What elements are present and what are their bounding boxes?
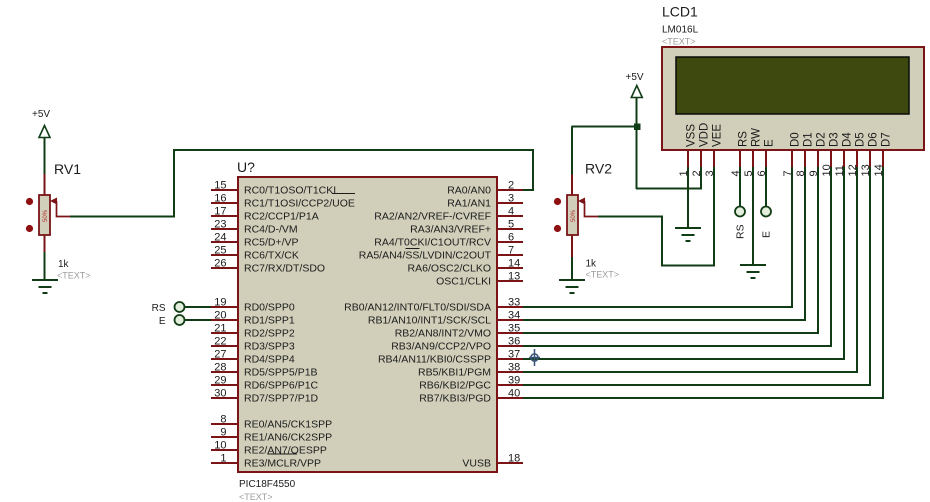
svg-text:PIC18F4550: PIC18F4550	[239, 479, 296, 490]
svg-text:37: 37	[508, 349, 520, 361]
svg-text:LCD1: LCD1	[662, 4, 698, 20]
svg-text:9: 9	[220, 427, 226, 439]
svg-text:33: 33	[508, 297, 520, 309]
svg-text:14: 14	[508, 258, 520, 270]
svg-text:RC1/T1OSI/CCP2/UOE: RC1/T1OSI/CCP2/UOE	[244, 198, 355, 210]
svg-text:D7: D7	[881, 132, 893, 147]
svg-text:25: 25	[214, 245, 226, 257]
svg-text:24: 24	[214, 232, 226, 244]
svg-text:<TEXT>: <TEXT>	[662, 37, 696, 47]
svg-text:16: 16	[214, 193, 226, 205]
svg-text:RC5/D+/VP: RC5/D+/VP	[244, 237, 299, 249]
svg-text:RD7/SPP7/P1D: RD7/SPP7/P1D	[244, 393, 319, 405]
svg-text:RA0/AN0: RA0/AN0	[447, 185, 491, 197]
svg-text:RB3/AN9/CCP2/VPO: RB3/AN9/CCP2/VPO	[391, 341, 491, 353]
svg-text:RD0/SPP0: RD0/SPP0	[244, 302, 295, 314]
svg-text:RE2/AN7/OESPP: RE2/AN7/OESPP	[244, 445, 327, 457]
svg-text:RA4/T0CKI/C1OUT/RCV: RA4/T0CKI/C1OUT/RCV	[374, 237, 491, 249]
svg-text:U?: U?	[237, 159, 255, 175]
svg-text:18: 18	[508, 453, 520, 465]
svg-text:<TEXT>: <TEXT>	[586, 270, 620, 280]
svg-text:7: 7	[508, 245, 514, 257]
svg-text:30: 30	[214, 388, 226, 400]
svg-text:RB0/AN12/INT0/FLT0/SDI/SDA: RB0/AN12/INT0/FLT0/SDI/SDA	[344, 302, 491, 314]
svg-text:1: 1	[220, 453, 226, 465]
svg-text:RD1/SPP1: RD1/SPP1	[244, 315, 295, 327]
svg-text:29: 29	[214, 375, 226, 387]
svg-text:VUSB: VUSB	[462, 458, 491, 470]
svg-text:<TEXT>: <TEXT>	[239, 492, 273, 502]
svg-text:RD4/SPP4: RD4/SPP4	[244, 354, 295, 366]
svg-text:RB2/AN8/INT2/VMO: RB2/AN8/INT2/VMO	[395, 328, 491, 340]
svg-text:RC2/CCP1/P1A: RC2/CCP1/P1A	[244, 211, 319, 223]
svg-text:RV2: RV2	[585, 161, 612, 177]
svg-text:2: 2	[508, 180, 514, 192]
svg-text:OSC1/CLKI: OSC1/CLKI	[436, 276, 491, 288]
svg-text:RB5/KBI1/PGM: RB5/KBI1/PGM	[418, 367, 491, 379]
svg-text:10: 10	[214, 440, 226, 452]
svg-text:8: 8	[220, 414, 226, 426]
svg-text:23: 23	[214, 219, 226, 231]
svg-text:RD6/SPP6/P1C: RD6/SPP6/P1C	[244, 380, 319, 392]
svg-text:<TEXT>: <TEXT>	[57, 271, 91, 281]
svg-text:RC0/T1OSO/T1CKI: RC0/T1OSO/T1CKI	[244, 185, 336, 197]
svg-text:D3: D3	[829, 132, 841, 147]
svg-text:VSS: VSS	[686, 124, 698, 147]
svg-text:E: E	[764, 139, 776, 147]
svg-text:D5: D5	[855, 132, 867, 147]
svg-text:RE3/MCLR/VPP: RE3/MCLR/VPP	[244, 458, 321, 470]
svg-text:RS: RS	[735, 224, 747, 239]
svg-text:RV1: RV1	[54, 161, 81, 177]
svg-text:RC4/D-/VM: RC4/D-/VM	[244, 224, 298, 236]
svg-text:RB4/AN11/KBI0/CSSPP: RB4/AN11/KBI0/CSSPP	[378, 354, 491, 366]
svg-text:D1: D1	[803, 132, 815, 147]
svg-text:22: 22	[214, 336, 226, 348]
svg-text:E: E	[159, 316, 166, 327]
svg-text:50%: 50%	[571, 209, 577, 222]
svg-text:38: 38	[508, 362, 520, 374]
svg-text:RA6/OSC2/CLKO: RA6/OSC2/CLKO	[408, 263, 491, 275]
svg-text:RE0/AN5/CK1SPP: RE0/AN5/CK1SPP	[244, 419, 332, 431]
svg-text:36: 36	[508, 336, 520, 348]
svg-text:RB6/KBI2/PGC: RB6/KBI2/PGC	[419, 380, 491, 392]
svg-text:6: 6	[508, 232, 514, 244]
svg-text:4: 4	[508, 206, 514, 218]
svg-text:D6: D6	[868, 132, 880, 147]
svg-text:RA2/AN2/VREF-/CVREF: RA2/AN2/VREF-/CVREF	[374, 211, 491, 223]
svg-text:27: 27	[214, 349, 226, 361]
svg-text:RB1/AN10/INT1/SCK/SCL: RB1/AN10/INT1/SCK/SCL	[368, 315, 491, 327]
svg-text:+5V: +5V	[32, 109, 50, 120]
svg-text:1k: 1k	[58, 259, 70, 270]
svg-text:21: 21	[214, 323, 226, 335]
svg-text:40: 40	[508, 388, 520, 400]
svg-text:RS: RS	[152, 303, 166, 314]
svg-text:+5V: +5V	[626, 72, 644, 83]
svg-text:39: 39	[508, 375, 520, 387]
svg-text:E: E	[761, 231, 773, 238]
svg-text:RD3/SPP3: RD3/SPP3	[244, 341, 295, 353]
svg-text:RE1/AN6/CK2SPP: RE1/AN6/CK2SPP	[244, 432, 332, 444]
svg-text:28: 28	[214, 362, 226, 374]
svg-text:D0: D0	[790, 132, 802, 147]
svg-text:VEE: VEE	[712, 124, 724, 147]
svg-text:17: 17	[214, 206, 226, 218]
svg-text:15: 15	[214, 180, 226, 192]
svg-text:RW: RW	[751, 128, 763, 147]
svg-text:35: 35	[508, 323, 520, 335]
svg-text:VDD: VDD	[699, 123, 711, 147]
svg-text:26: 26	[214, 258, 226, 270]
svg-text:1k: 1k	[586, 259, 598, 270]
svg-text:RC7/RX/DT/SDO: RC7/RX/DT/SDO	[244, 263, 325, 275]
svg-text:RD2/SPP2: RD2/SPP2	[244, 328, 295, 340]
svg-text:RA3/AN3/VREF+: RA3/AN3/VREF+	[410, 224, 491, 236]
svg-text:RB7/KBI3/PGD: RB7/KBI3/PGD	[419, 393, 491, 405]
svg-text:LM016L: LM016L	[662, 25, 699, 36]
svg-text:RS: RS	[738, 131, 750, 147]
svg-text:RA1/AN1: RA1/AN1	[447, 198, 491, 210]
svg-text:5: 5	[508, 219, 514, 231]
svg-text:D4: D4	[842, 132, 854, 147]
svg-text:3: 3	[508, 193, 514, 205]
svg-text:RA5/AN4/SS/LVDIN/C2OUT: RA5/AN4/SS/LVDIN/C2OUT	[359, 250, 492, 262]
svg-text:RD5/SPP5/P1B: RD5/SPP5/P1B	[244, 367, 318, 379]
svg-text:RC6/TX/CK: RC6/TX/CK	[244, 250, 299, 262]
svg-text:34: 34	[508, 310, 520, 322]
svg-text:13: 13	[508, 271, 520, 283]
svg-text:50%: 50%	[43, 209, 49, 222]
svg-text:D2: D2	[816, 132, 828, 147]
